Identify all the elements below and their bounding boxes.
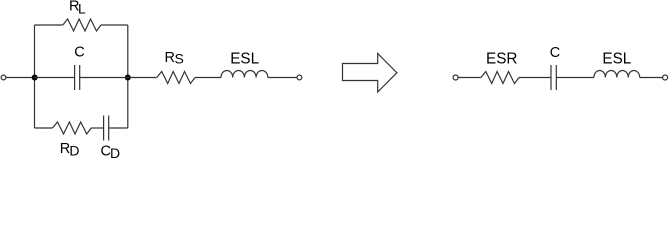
capacitor CD — [103, 116, 105, 141]
inductor ESL (simplified circuit) — [594, 70, 640, 77]
svg-text:D: D — [69, 143, 79, 159]
svg-text:C: C — [74, 45, 84, 61]
wire input to node A — [6, 77, 35, 79]
inductor ESL (left circuit) — [221, 70, 268, 77]
wire RD to CD — [91, 127, 103, 129]
wire node A to capacitor C — [35, 77, 75, 79]
svg-text:ESR: ESR — [486, 51, 517, 68]
resistor RS — [157, 72, 195, 84]
svg-text:ESL: ESL — [602, 50, 631, 67]
wire RS to ESL — [195, 77, 221, 79]
label CD — [101, 143, 121, 161]
node A junction dot — [32, 75, 38, 81]
label RD — [60, 141, 80, 158]
terminal right (simplified circuit output) — [663, 75, 668, 80]
resistor ESR — [481, 72, 519, 84]
resistor RL — [63, 19, 101, 31]
wire input to ESR — [458, 77, 481, 79]
node B junction dot — [125, 75, 131, 81]
terminal right (left circuit output) — [297, 75, 302, 80]
svg-text:C: C — [550, 45, 560, 61]
wire ESR to C — [519, 77, 551, 79]
wire capacitor C to node B — [80, 77, 128, 79]
resistor RD — [52, 122, 91, 134]
wire left branch vertical — [34, 25, 36, 128]
svg-text:L: L — [78, 1, 86, 17]
terminal left (input) — [1, 75, 6, 80]
wire bottom rail left — [35, 127, 53, 129]
arrow (equivalence) — [343, 54, 397, 93]
wire ESL to output terminal — [640, 77, 663, 79]
capacitor C — [74, 65, 76, 90]
svg-text:R: R — [165, 50, 175, 66]
terminal left (simplified circuit input) — [453, 75, 458, 80]
wire ESL to output terminal — [268, 77, 297, 79]
wire top rail right — [101, 24, 128, 26]
capacitor C (simplified circuit) — [550, 65, 552, 90]
wire right branch vertical — [127, 25, 129, 128]
label RS — [165, 50, 184, 67]
svg-text:D: D — [110, 145, 120, 159]
label RL — [69, 0, 86, 17]
svg-text:S: S — [175, 51, 184, 67]
wire C to ESL — [556, 77, 594, 79]
wire top rail left — [35, 24, 63, 26]
svg-text:ESL: ESL — [230, 51, 259, 68]
wire bottom rail right — [109, 127, 128, 129]
wire node B to RS — [128, 77, 157, 79]
